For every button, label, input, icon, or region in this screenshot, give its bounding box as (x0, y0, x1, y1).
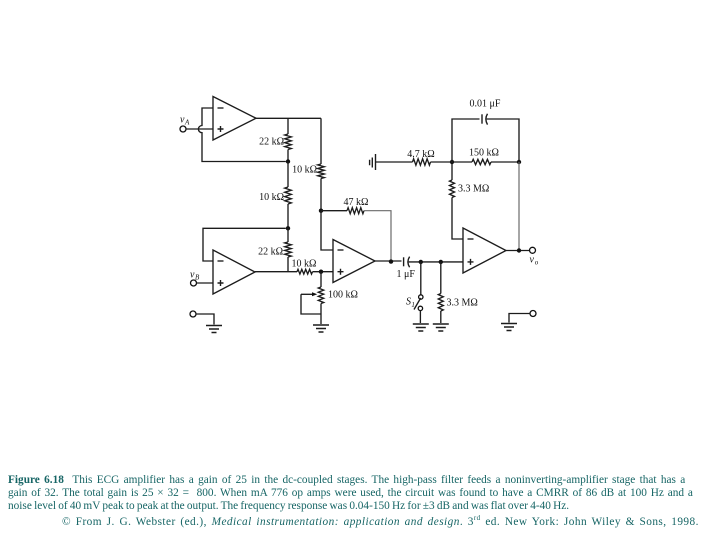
wire R2 to node2 (287, 204, 289, 228)
terminal lower-right ground reference (530, 311, 536, 317)
wire vA to U1 + input (186, 128, 213, 130)
wire R8 to ground (440, 311, 442, 323)
resistor R10 4.7 kOhm (413, 159, 431, 165)
resistor R9 3.3 MOhm (450, 180, 455, 198)
ground (under R8) (433, 324, 449, 331)
op-amp U1 (first dc-coupled stage, input vA) (213, 97, 256, 141)
wire node2 to R3 (287, 228, 289, 242)
svg-text:3.3 MΩ: 3.3 MΩ (458, 184, 489, 195)
resistor R5 47 kOhm feedback (347, 208, 364, 214)
wire R4 to node3 (320, 179, 322, 211)
svg-text:22 kΩ: 22 kΩ (259, 137, 284, 148)
node A junction dot (450, 160, 454, 164)
R7 wiper arrow (301, 293, 313, 295)
node6 junction dot (419, 260, 423, 264)
U4 minus pin symbol (468, 238, 474, 240)
resistor R2 10 kOhm (285, 187, 292, 204)
wire R10 to side ground (376, 161, 413, 163)
ground (under R7) (313, 325, 329, 332)
node5 junction dot (U3 output) (389, 259, 393, 263)
R7 wiper return wire (301, 294, 321, 314)
svg-text:3.3 MΩ: 3.3 MΩ (447, 298, 478, 309)
resistor R8 3.3 MOhm branch wire (440, 262, 442, 294)
op-amp U4 (noninverting amplifier) (463, 228, 506, 273)
svg-text:4.7 kΩ: 4.7 kΩ (407, 149, 434, 160)
potentiometer R7 100 kOhm (320, 272, 322, 287)
svg-text:B: B (195, 274, 200, 282)
svg-text:A: A (184, 119, 190, 127)
wire U4 output (506, 250, 530, 252)
svg-text:22 kΩ: 22 kΩ (258, 247, 283, 258)
switch S1 branch wire (420, 262, 422, 295)
wire node B down to U4 output (518, 162, 520, 251)
wire U1 output down right branch (320, 118, 322, 164)
svg-text:0.01 μF: 0.01 μF (470, 98, 501, 109)
svg-text:150 kΩ: 150 kΩ (469, 147, 499, 158)
svg-text:10 kΩ: 10 kΩ (292, 165, 317, 176)
node8 junction dot (U4 output) (517, 248, 521, 252)
node B junction dot (517, 160, 521, 164)
wire C2 to node B (487, 119, 519, 162)
wire node3 to U3 - input (321, 211, 333, 250)
svg-text:S: S (406, 297, 411, 308)
resistor R6 10 kOhm (297, 269, 313, 274)
wire node A to R10 (431, 161, 453, 163)
U3 plus pin symbol (338, 269, 344, 275)
node4 junction dot (319, 270, 323, 274)
U4 plus pin symbol (468, 259, 474, 265)
U1 minus pin symbol (218, 107, 224, 109)
wire 22k branch from U1 output (287, 118, 289, 134)
wire node A up to C2 (452, 119, 480, 162)
wire U4 - input to node A (452, 198, 463, 240)
resistor R11 150 kOhm (472, 159, 491, 164)
wire terminal to ground (lower-right) (509, 314, 530, 323)
svg-text:1: 1 (411, 301, 415, 309)
wire node3 to R5 (321, 210, 347, 212)
node1 junction dot (286, 159, 290, 163)
resistor R3 22 kOhm (285, 242, 292, 257)
wire R11 to node B (491, 161, 519, 163)
svg-text:10 kΩ: 10 kΩ (259, 192, 284, 203)
svg-text:o: o (535, 259, 539, 267)
wire S1 to ground (419, 311, 421, 323)
op-amp U3 (difference stage) (333, 240, 375, 283)
wire U2 - input feedback to node2 (203, 228, 286, 261)
switch S1 (419, 295, 423, 299)
wire R5 to U3 output node (364, 211, 391, 262)
terminal vo (530, 247, 536, 253)
wire U2 output rail (255, 271, 297, 273)
wire R6 to node4 (313, 271, 334, 273)
U3 minus pin symbol (338, 249, 344, 251)
wire U1 - input feedback (with hop over vA wire) (198, 108, 285, 162)
wire R3 to U2 output rail (287, 257, 289, 272)
ground (side-facing, left) (370, 154, 376, 170)
wire node1 to R2 (287, 162, 289, 188)
svg-text:100 kΩ: 100 kΩ (328, 290, 358, 301)
op-amp U2 (second dc-coupled stage, input vB) (213, 250, 255, 294)
terminal vA (180, 126, 186, 132)
capacitor C1 1 uF (403, 257, 405, 266)
svg-text:47 kΩ: 47 kΩ (344, 197, 369, 208)
wire R9 to node A (451, 162, 453, 180)
node3 junction dot (319, 209, 323, 213)
svg-text:v: v (530, 255, 535, 266)
wire U1 output rail (256, 117, 321, 119)
node2 junction dot (286, 226, 290, 230)
wire terminal to ground (196, 314, 214, 325)
U2 plus pin symbol (218, 280, 224, 286)
wire R1 to node1 (287, 150, 289, 162)
svg-text:1 μF: 1 μF (397, 269, 416, 280)
wire U3 output (375, 260, 402, 262)
terminal vB (191, 280, 197, 286)
terminal lower-left ground reference (190, 311, 196, 317)
svg-text:10 kΩ: 10 kΩ (292, 258, 317, 269)
ground (lower-right) (501, 324, 517, 331)
U1 plus pin symbol (218, 126, 224, 132)
ground (under S1) (413, 324, 429, 331)
wire vB to U2 + input (197, 282, 214, 284)
U2 minus pin symbol (218, 260, 224, 262)
resistor R4 10 kOhm (318, 164, 325, 179)
capacitor C2 0.01 uF (481, 114, 483, 123)
ground (lower-left) (206, 326, 222, 333)
node7 junction dot (439, 260, 443, 264)
wire node A to R11 (452, 161, 472, 163)
wire C1 to U4 + input (409, 261, 463, 263)
resistor R1 22 kOhm (285, 134, 292, 150)
